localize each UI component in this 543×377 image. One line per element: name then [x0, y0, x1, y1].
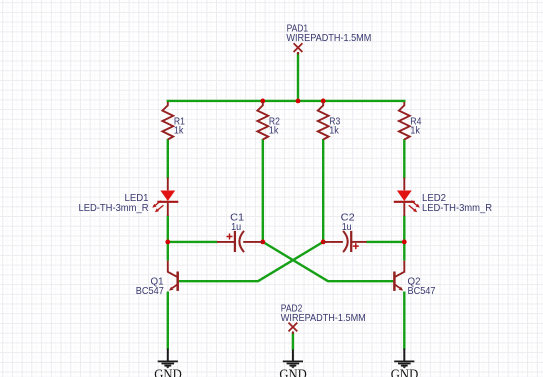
wire R1 bottom to LED1 anode [167, 139, 169, 179]
svg-text:1k: 1k [329, 126, 339, 137]
wire top bus VCC [167, 100, 406, 102]
wire Q1 emitter to GND1 [167, 292, 169, 350]
svg-text:WIREPADTH-1.5MM: WIREPADTH-1.5MM [286, 33, 371, 44]
svg-text:1k: 1k [174, 126, 184, 137]
resistor R4 [399, 102, 422, 140]
junction bus PAD1 [296, 99, 301, 104]
LED LED1 [79, 178, 179, 217]
wire LED1 node to C1 left [168, 241, 218, 243]
LED LED2 [394, 178, 492, 217]
resistor R1 [162, 102, 185, 140]
wire Q1 base to node C diagonal [179, 242, 323, 281]
wire R4 bottom to LED2 anode [403, 139, 405, 179]
resistor R3 [318, 102, 341, 140]
svg-text:GND: GND [154, 367, 182, 377]
wire R3 bottom to node C [322, 139, 324, 242]
transistor Q1 [136, 261, 178, 297]
ground GND1 [154, 349, 182, 377]
wire Q2 base to node B diagonal [263, 242, 394, 281]
svg-text:1u: 1u [231, 222, 241, 233]
svg-text:BC547: BC547 [136, 286, 164, 297]
svg-text:GND: GND [391, 367, 419, 377]
svg-text:WIREPADTH-1.5MM: WIREPADTH-1.5MM [281, 313, 366, 324]
ground GND2 [279, 350, 307, 377]
junction bus R3 [321, 99, 326, 104]
wire PAD2 to GND2 [292, 333, 294, 351]
wire Q2 emitter to GND3 [403, 292, 405, 350]
svg-text:1u: 1u [342, 222, 352, 233]
ground GND3 [391, 349, 419, 377]
capacitor C2 [323, 213, 366, 252]
resistor R2 [257, 102, 280, 140]
transistor Q2 [394, 261, 435, 297]
pad PAD2 [281, 304, 366, 335]
capacitor C1 [217, 213, 263, 252]
svg-text:1k: 1k [410, 126, 420, 137]
svg-text:1k: 1k [269, 126, 279, 137]
wire PAD1 to bus [297, 53, 299, 101]
svg-text:GND: GND [279, 367, 307, 377]
wire R2 bottom to node B [262, 139, 264, 242]
wire LED1 cathode to Q1 collector [167, 216, 169, 261]
junction bus R2 [260, 99, 265, 104]
svg-text:LED-TH-3mm_R: LED-TH-3mm_R [79, 203, 149, 214]
svg-text:LED-TH-3mm_R: LED-TH-3mm_R [422, 203, 492, 214]
wire C2 right to LED2 node [366, 241, 404, 243]
junction node C [321, 240, 326, 245]
junction node LED2 cap row [402, 240, 407, 245]
junction node B [260, 240, 265, 245]
wire LED2 cathode to Q2 collector [403, 216, 405, 261]
junction node LED1 cap row [165, 240, 170, 245]
pad PAD1 [286, 24, 371, 55]
svg-text:BC547: BC547 [408, 286, 436, 297]
